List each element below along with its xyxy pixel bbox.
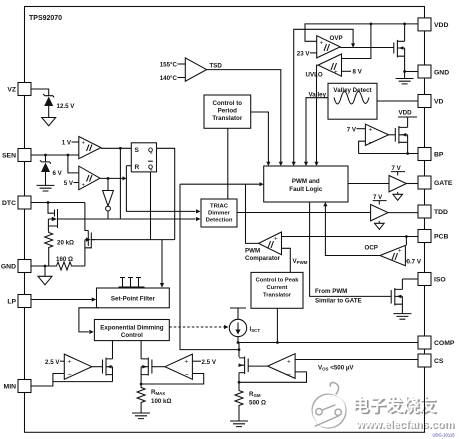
wire Qbar down bbox=[150, 172, 152, 240]
ground below Rgm bbox=[230, 421, 248, 427]
svg-text:VOS <500 µV: VOS <500 µV bbox=[318, 365, 354, 372]
wire OVP output to clamp gate bbox=[340, 47, 394, 49]
wire BP output and feedback bbox=[359, 153, 418, 155]
svg-text:1 V: 1 V bbox=[62, 140, 72, 147]
junction SEN-zener bbox=[44, 154, 47, 157]
arrowhead C2PT into PWM bbox=[266, 162, 270, 166]
wire comparator out to latch S bbox=[101, 147, 131, 149]
svg-text:−: − bbox=[369, 140, 373, 147]
svg-text:Control to: Control to bbox=[213, 100, 243, 107]
wire LP to set-point filter bbox=[31, 299, 92, 301]
wire TRIAC output to TDD driver bbox=[237, 212, 371, 214]
svg-text:TRIAC: TRIAC bbox=[210, 204, 229, 210]
watermark logo bbox=[311, 382, 346, 427]
ground below clamp bbox=[396, 72, 414, 84]
junction feedback bbox=[238, 381, 241, 384]
svg-text:RMAX: RMAX bbox=[151, 389, 165, 396]
svg-text:SEN: SEN bbox=[2, 153, 16, 160]
wire translator to COMP rail bbox=[276, 308, 278, 342]
pin VZ bbox=[7, 83, 31, 96]
arrowhead TRIAC input 2 bbox=[196, 217, 201, 221]
svg-text:−: − bbox=[68, 372, 72, 379]
pin GND right bbox=[418, 65, 449, 78]
svg-text:LP: LP bbox=[7, 299, 16, 306]
pin PCB bbox=[418, 230, 448, 243]
svg-text:12.5 V: 12.5 V bbox=[57, 103, 76, 110]
svg-text:Fault Logic: Fault Logic bbox=[289, 186, 323, 193]
arrowhead into dimming control bbox=[89, 330, 94, 334]
wire into inverter bbox=[107, 178, 109, 190]
wire MIN pin bbox=[31, 382, 53, 386]
arrowhead dashed bbox=[224, 325, 229, 329]
ground below 6V zener bbox=[37, 185, 55, 191]
wire UVLO output to PWM logic bbox=[317, 65, 319, 163]
svg-text:CS: CS bbox=[434, 358, 444, 365]
svg-text:RGM: RGM bbox=[249, 391, 261, 398]
svg-text:DTC: DTC bbox=[2, 200, 16, 207]
svg-text:PWM: PWM bbox=[245, 248, 260, 255]
arrowhead LP into filter bbox=[92, 297, 97, 301]
svg-text:GND: GND bbox=[1, 264, 16, 271]
svg-text:Translator: Translator bbox=[212, 115, 243, 122]
svg-text:Control to Peak: Control to Peak bbox=[256, 278, 300, 284]
comparator 1V (hysteresis) bbox=[79, 137, 101, 159]
wire S net vertical bbox=[119, 148, 121, 219]
svg-text:PCB: PCB bbox=[434, 234, 448, 241]
pin LP bbox=[7, 295, 31, 308]
pin VDD bbox=[418, 18, 448, 31]
transistor MIN clamp right bbox=[141, 341, 165, 386]
ground (open arrow) below VZ zener bbox=[42, 118, 56, 126]
wire 2.5V right bbox=[192, 360, 201, 362]
resistor 20 kOhm bbox=[45, 231, 53, 266]
svg-text:500 Ω: 500 Ω bbox=[249, 400, 266, 407]
svg-text:8 V: 8 V bbox=[353, 69, 363, 76]
svg-text:PWM and: PWM and bbox=[292, 178, 320, 185]
driver TDD buffer bbox=[371, 201, 388, 230]
wire SEN rail bbox=[31, 154, 79, 156]
wire dashed dimming to Isct bbox=[169, 326, 224, 328]
supply bar VDD (BP) bbox=[398, 116, 417, 118]
svg-text:TSD: TSD bbox=[210, 63, 223, 70]
pin GATE bbox=[418, 176, 453, 189]
wire Valley output to PWM logic bbox=[306, 98, 328, 163]
svg-text:Exponential Dimming: Exponential Dimming bbox=[100, 324, 163, 331]
svg-text:+: + bbox=[320, 41, 324, 47]
svg-text:140°C: 140°C bbox=[160, 75, 178, 82]
wire VDD to UVLO minus bbox=[342, 24, 371, 59]
transistor BP pass bbox=[389, 117, 408, 154]
transistor VDD clamp bbox=[394, 24, 405, 72]
block TRIAC Dimmer Detection bbox=[201, 199, 237, 227]
resistor Rmax bbox=[137, 386, 145, 413]
transistor CS sense bbox=[239, 357, 249, 390]
transistor M2 bbox=[85, 231, 95, 267]
wire 7V into op-amp bbox=[357, 128, 366, 130]
svg-text:7 V: 7 V bbox=[347, 126, 357, 133]
pin CS bbox=[418, 354, 444, 367]
wire VDD rail bbox=[305, 24, 418, 41]
svg-text:Comparator: Comparator bbox=[245, 255, 281, 262]
pin MIN bbox=[4, 380, 31, 393]
ground below Rmax bbox=[132, 413, 150, 419]
svg-text:6 V: 6 V bbox=[53, 170, 63, 177]
ground below ISO transistor bbox=[393, 314, 411, 320]
svg-text:160 Ω: 160 Ω bbox=[56, 256, 73, 263]
block PWM and Fault Logic bbox=[264, 166, 348, 202]
wire drain rail to dimmer detect bbox=[58, 218, 196, 220]
wire DTC rail bbox=[31, 202, 85, 204]
op-amp MIN clamp left bbox=[64, 354, 92, 379]
svg-text:23 V: 23 V bbox=[297, 50, 311, 57]
svg-text:VDD: VDD bbox=[434, 22, 448, 29]
svg-text:5 V: 5 V bbox=[64, 180, 74, 187]
svg-text:155°C: 155°C bbox=[160, 62, 178, 69]
wire ISO gate from PWM logic bbox=[310, 202, 392, 296]
pin ISO bbox=[418, 273, 446, 286]
block Control to Peak Current Translator bbox=[251, 272, 303, 308]
wire OCP plus input bbox=[405, 237, 407, 246]
arrowhead into PWM left bbox=[260, 182, 264, 186]
svg-text:Translator: Translator bbox=[263, 293, 292, 299]
resistor 160 Ohm bbox=[55, 262, 85, 270]
svg-text:+: + bbox=[287, 359, 291, 366]
block Exponential Dimming Control bbox=[94, 320, 169, 341]
comparator OVP bbox=[317, 36, 341, 58]
wire GATE output bbox=[406, 183, 418, 185]
wire TSD output to PWM logic bbox=[207, 70, 281, 163]
svg-text:2.5 V: 2.5 V bbox=[202, 359, 217, 366]
op-amp Vos (points left) bbox=[268, 354, 296, 379]
svg-text:ISCT: ISCT bbox=[250, 326, 261, 333]
wire OVP loop to PWM logic bbox=[294, 29, 353, 163]
wire DTC drop to M2 gate bbox=[85, 203, 88, 231]
pin BP bbox=[418, 148, 444, 161]
wire R net vertical to dimmer detect bbox=[126, 166, 195, 212]
junction GND arrow bbox=[44, 265, 47, 268]
svg-text:Similar to GATE: Similar to GATE bbox=[315, 297, 362, 304]
comparator PWM (points left) bbox=[259, 232, 282, 255]
junction S-line bbox=[119, 147, 122, 150]
wire Vpwm to translator bbox=[282, 248, 291, 272]
junction inverter tap bbox=[107, 177, 110, 180]
arrowhead OVP into PWM bbox=[292, 162, 296, 166]
junction Rmax bbox=[140, 383, 143, 386]
comparator TSD thermal shutdown bbox=[185, 58, 206, 81]
wire 5V comparator output bbox=[100, 177, 124, 179]
svg-text:BP: BP bbox=[434, 152, 444, 159]
wire PCB rail bbox=[282, 236, 419, 238]
transistor ISO switch bbox=[391, 279, 402, 314]
transistor M1 (DTC pull-down) bbox=[48, 209, 57, 231]
current source Isct bbox=[229, 308, 246, 343]
svg-text:S: S bbox=[135, 147, 140, 154]
arrowhead UVLO into PWM bbox=[314, 162, 318, 166]
wire 2.5V into op-amp bbox=[60, 360, 64, 362]
svg-text:Q: Q bbox=[148, 164, 153, 171]
svg-text:OVP: OVP bbox=[330, 35, 343, 42]
wire C2PT output to PWM logic bbox=[251, 112, 269, 163]
comb pulses above set-point filter bbox=[119, 278, 145, 288]
pin VD bbox=[418, 95, 444, 108]
junction clamp VDD bbox=[403, 23, 406, 26]
svg-text:Q: Q bbox=[148, 147, 153, 154]
svg-text:+: + bbox=[398, 249, 402, 255]
driver GATE buffer bbox=[389, 172, 406, 201]
op-amp BP regulator bbox=[365, 124, 388, 147]
svg-text:Current: Current bbox=[267, 285, 288, 291]
wire COMP rail bbox=[238, 342, 418, 344]
wire Vos feedback bbox=[239, 372, 307, 382]
svg-text:UVLO: UVLO bbox=[306, 72, 323, 79]
comparator OCP (points left) bbox=[380, 245, 405, 265]
block Control to Period Translator bbox=[204, 95, 251, 128]
svg-text:+: + bbox=[185, 359, 189, 366]
svg-text:20 kΩ: 20 kΩ bbox=[57, 240, 74, 247]
svg-text:Valley Detect: Valley Detect bbox=[333, 87, 371, 94]
wire drain rail 2 bbox=[91, 239, 174, 241]
svg-text:VPWM: VPWM bbox=[293, 258, 308, 265]
junction Isct bbox=[237, 341, 240, 344]
svg-text:+: + bbox=[82, 183, 86, 189]
wire 8V input bbox=[342, 70, 352, 72]
wire CS gate from op-amp bbox=[248, 365, 267, 367]
wire 1V to comparator bbox=[72, 141, 79, 143]
wire to 5V comparator bbox=[68, 155, 79, 173]
wire PWM comparator output to fault logic bbox=[180, 184, 262, 243]
svg-text:Control: Control bbox=[121, 332, 143, 339]
junction DTC gate tap bbox=[47, 201, 50, 204]
wire ISO to pin bbox=[402, 278, 418, 280]
wire GND right rail bbox=[405, 71, 418, 73]
wire VD pin to Valley Detect bbox=[377, 100, 418, 102]
op-amp MIN clamp right (points left) bbox=[165, 354, 192, 379]
wire C2PT input from TRIAC detect bbox=[227, 128, 229, 199]
wire filter to dimming control bbox=[79, 308, 99, 332]
svg-text:+: + bbox=[68, 359, 72, 366]
svg-text:−: − bbox=[185, 372, 189, 379]
svg-text:OCP: OCP bbox=[365, 245, 378, 252]
svg-text:TPS92070: TPS92070 bbox=[29, 15, 62, 22]
wire TDD output bbox=[388, 212, 418, 214]
wire 5V to comparator bbox=[74, 182, 79, 184]
svg-text:Dimmer: Dimmer bbox=[208, 211, 231, 217]
arrowhead OCP into PWM bbox=[323, 202, 327, 206]
wire GND rail bbox=[31, 265, 55, 267]
arrowhead TSD into PWM bbox=[279, 162, 283, 166]
wire PWM to GATE driver bbox=[348, 183, 389, 185]
comparator 5V (hysteresis) bbox=[79, 166, 100, 190]
wire down to COMP net bbox=[180, 184, 239, 349]
svg-text:−: − bbox=[287, 372, 291, 379]
svg-text:UDG-10115: UDG-10115 bbox=[433, 433, 456, 438]
svg-text:+: + bbox=[369, 127, 373, 134]
wire CS rail bbox=[295, 359, 418, 361]
zener diode 6V bbox=[40, 155, 51, 185]
svg-text:2.5 V: 2.5 V bbox=[45, 359, 60, 366]
svg-text:电子发烧友: 电子发烧友 bbox=[352, 395, 436, 415]
wire R input bbox=[126, 165, 131, 167]
inverter (points down) bbox=[103, 191, 114, 220]
svg-text:GATE: GATE bbox=[434, 180, 453, 187]
svg-text:Period: Period bbox=[218, 108, 237, 115]
svg-text:VZ: VZ bbox=[7, 87, 16, 94]
svg-text:Set-Point Filter: Set-Point Filter bbox=[111, 295, 156, 302]
svg-text:+: + bbox=[274, 237, 278, 243]
wire 155C input bbox=[178, 63, 186, 65]
arrowhead TRIAC input 1 bbox=[196, 209, 201, 213]
svg-text:From PWM: From PWM bbox=[315, 288, 347, 295]
pin COMP bbox=[418, 336, 455, 349]
svg-text:0.7 V: 0.7 V bbox=[407, 258, 422, 265]
comparator UVLO (points left) bbox=[318, 54, 342, 76]
transistor MIN clamp left bbox=[92, 341, 113, 382]
svg-text:VDD: VDD bbox=[399, 110, 413, 117]
svg-text:R: R bbox=[135, 164, 140, 171]
pin GND left bbox=[1, 260, 31, 273]
wire MIN feedback right bbox=[141, 374, 204, 385]
ground (open arrow) below GND pin bbox=[44, 266, 46, 276]
arrowhead Valley into PWM bbox=[304, 162, 308, 166]
wire 0.7V input bbox=[405, 260, 407, 262]
svg-text:GND: GND bbox=[434, 70, 449, 77]
wire COMP down to sense transistor bbox=[238, 343, 240, 358]
wire OCP output to PWM logic bbox=[325, 205, 380, 255]
SR latch bbox=[131, 143, 156, 172]
arrowhead OVP loop bbox=[351, 43, 355, 47]
resistor Rgm bbox=[235, 389, 243, 421]
junction clamp GND bbox=[403, 70, 406, 73]
svg-text:VD: VD bbox=[434, 99, 444, 106]
svg-text:COMP: COMP bbox=[434, 340, 455, 347]
junction translator bbox=[276, 341, 279, 344]
svg-text:+: + bbox=[334, 70, 338, 76]
pin DTC bbox=[2, 196, 31, 209]
svg-text:ISO: ISO bbox=[434, 277, 446, 284]
svg-text:+: + bbox=[82, 141, 86, 147]
wire 23V input bbox=[310, 52, 317, 54]
junction VDD-UVLO bbox=[370, 23, 373, 26]
junction comp drop bbox=[238, 348, 241, 351]
wire 140C input bbox=[178, 77, 186, 79]
wire Q output bbox=[157, 148, 175, 239]
wire VZ to zener bbox=[31, 89, 49, 96]
junction PCB-OCP bbox=[405, 235, 408, 238]
zener diode 12.5V clamp bbox=[43, 94, 54, 118]
svg-text:Detection: Detection bbox=[206, 218, 233, 224]
block Set-Point Filter bbox=[97, 288, 170, 308]
arrowhead into R net bbox=[123, 176, 127, 180]
svg-text:7 V: 7 V bbox=[373, 194, 383, 201]
wire to set-point filter (arrow down) bbox=[161, 240, 163, 284]
svg-text:TDD: TDD bbox=[434, 209, 448, 216]
svg-text:www.elecfans.com: www.elecfans.com bbox=[355, 418, 454, 430]
svg-text:100 kΩ: 100 kΩ bbox=[151, 398, 171, 405]
wire MIN feedback left bbox=[53, 374, 113, 382]
wire DTC gate drop bbox=[48, 203, 55, 214]
svg-text:7 V: 7 V bbox=[392, 165, 402, 172]
pin SEN bbox=[2, 149, 31, 162]
block Valley Detect bbox=[328, 83, 377, 119]
junction SEN-branch bbox=[67, 154, 70, 157]
pin TDD bbox=[418, 205, 448, 218]
svg-text:MIN: MIN bbox=[4, 384, 17, 391]
